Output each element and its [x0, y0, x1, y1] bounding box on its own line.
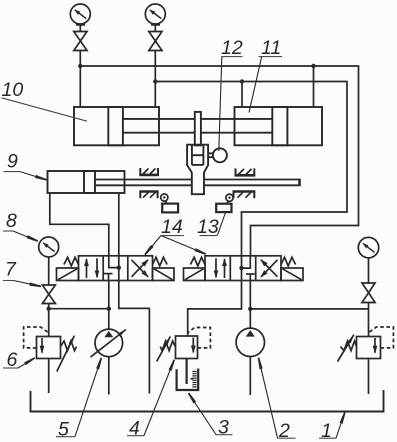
- label 9: [7, 151, 18, 173]
- cylinder 9 (feed cylinder): [48, 171, 125, 193]
- label 4: [127, 418, 145, 440]
- label 5: [56, 419, 75, 441]
- fixed guide (hatched) above beam right: [235, 168, 256, 175]
- pressure gauge MN1 (top left): [70, 4, 90, 25]
- svg-text:12: 12: [221, 37, 243, 59]
- wire: valve 7 to pump line: [48, 304, 50, 309]
- label 8: [6, 210, 17, 232]
- left valve left spring: [64, 257, 79, 266]
- wire: left valve port A down to pump 5: [108, 281, 110, 330]
- label 14 leaders: [146, 236, 205, 255]
- label 11: [259, 37, 283, 59]
- relief valve (right, item 6 twin): [338, 327, 394, 394]
- label 6 leader: [3, 358, 34, 368]
- left valve left solenoid: [57, 268, 79, 281]
- wire: right pump branch horizontal: [250, 308, 368, 310]
- right valve right solenoid: [281, 268, 303, 281]
- junction dot at pump 5 discharge: [107, 307, 111, 311]
- pressure gauge MN2 (top middle): [145, 4, 165, 25]
- slide beam / rod of cylinder 9: [95, 179, 300, 187]
- label 1: [319, 420, 337, 442]
- left valve square 1 arrows: [87, 258, 98, 278]
- wire: gauge MN2 drop to cylinder 10 right port: [154, 51, 156, 108]
- label 2: [277, 420, 296, 442]
- svg-text:6: 6: [7, 349, 18, 371]
- shut-off valve (right): [362, 283, 375, 303]
- shut-off valve under gauge MN2: [149, 26, 162, 51]
- shut-off valve under gauge MN1: [74, 26, 87, 51]
- right valve middle square: through line, elbow and blocked port: [242, 256, 255, 281]
- left valve square 3 crossed arrows: [132, 260, 149, 277]
- right valve right spring: [281, 257, 296, 266]
- relief valve 6: [24, 327, 77, 393]
- wire: relief valve 6 drop: [48, 309, 50, 337]
- tank 1: [31, 390, 384, 412]
- pressure gauge (right): [358, 237, 378, 257]
- wire: right shut-off valve to pump line: [368, 303, 370, 337]
- label 1 leader: [336, 413, 345, 438]
- label 6: [7, 349, 18, 371]
- right valve left spring: [190, 257, 205, 266]
- svg-text:7: 7: [5, 259, 17, 281]
- pump 2 (fixed displacement): [236, 328, 264, 395]
- label 13: [197, 216, 219, 238]
- label 7 leader: [3, 281, 40, 287]
- label 12 leader: [219, 57, 222, 152]
- wire: cylinder 11 right port drop: [313, 66, 315, 107]
- right valve square 1 arrows: [216, 258, 225, 278]
- label 10 leader: [2, 98, 88, 121]
- crosshead plate between rods: [195, 112, 201, 145]
- left valve right solenoid: [153, 268, 175, 281]
- svg-text:10: 10: [2, 79, 24, 101]
- wire: gauge 8 stem: [48, 257, 50, 285]
- label 12: [221, 37, 243, 59]
- cylinder 11 (right clamp cylinder): [201, 107, 322, 145]
- clamp yoke 12: [187, 145, 208, 195]
- svg-text:9: 9: [7, 151, 18, 173]
- cylinder 10 (left clamp cylinder): [74, 107, 195, 145]
- right valve square 3 crossed arrows: [261, 260, 278, 277]
- wire: line B horizontal (y=81.5): [155, 82, 347, 256]
- junction dot at valve 7 branch: [47, 307, 51, 311]
- junction dot B1: [153, 79, 157, 83]
- wire: pump 2 discharge: [249, 281, 251, 329]
- wire: cylinder 9 cap-end port elbow to left valve: [50, 193, 109, 256]
- label 5 leader: [75, 359, 101, 437]
- svg-text:11: 11: [261, 37, 281, 59]
- wire: line A horizontal (y=66): [80, 66, 358, 256]
- svg-text:13: 13: [197, 216, 219, 238]
- fixed guide (hatched) above beam left: [139, 168, 159, 175]
- label 7: [5, 259, 17, 281]
- pressure gauge 8 (left): [39, 237, 59, 257]
- shut-off valve 7: [42, 285, 55, 304]
- wire: right valve port to flow valve 4: [188, 281, 242, 337]
- label 4 leader: [144, 361, 174, 436]
- wire: gauge MN1 drop to cylinder 10 left port: [79, 51, 81, 108]
- label 13 leader: [218, 213, 226, 236]
- label 11 leader: [249, 57, 262, 113]
- junction dot A2: [311, 64, 315, 68]
- right valve left solenoid: [184, 268, 206, 281]
- label 8 leader: [3, 231, 37, 241]
- label 3 leader: [189, 394, 216, 435]
- left valve right spring: [153, 257, 168, 266]
- wire: left pump branch horizontal: [49, 308, 109, 310]
- measuring beaker 3: [177, 369, 199, 391]
- label 10: [2, 79, 24, 101]
- wire: right gauge stem: [368, 258, 370, 283]
- directional valve 14 (right) body: [205, 256, 281, 281]
- left valve middle square: through line, elbow and blocked port: [104, 256, 119, 281]
- wire: cylinder 11 left port drop: [241, 82, 243, 108]
- junction dot A1: [78, 64, 82, 68]
- flow control valve 4: [157, 328, 211, 385]
- ball electrode held by clamp: [208, 148, 227, 162]
- label 2 leader: [259, 359, 278, 438]
- svg-text:8: 8: [6, 210, 17, 232]
- wire: left valve port B jog to tank: [119, 281, 150, 394]
- wire: cylinder 9 rod-end port to left valve: [118, 193, 120, 256]
- junction dot B2: [240, 79, 244, 83]
- label 14: [161, 216, 185, 238]
- fixed guide (hatched) below beam left: [139, 192, 158, 199]
- junction dot inside left valve: [117, 265, 121, 269]
- pump 5 (variable displacement): [91, 329, 126, 394]
- label 3: [216, 417, 233, 439]
- fixed guide (hatched) below beam right: [233, 192, 256, 199]
- label 9 leader: [4, 172, 46, 180]
- junction dot at pump 2 discharge: [248, 307, 252, 311]
- junction dot inside right valve: [239, 266, 243, 270]
- roller limit switch left: [161, 194, 178, 213]
- roller limit switch 13 (right): [216, 194, 233, 212]
- directional valve 14 (left) body: [79, 256, 153, 281]
- svg-text:14: 14: [161, 216, 183, 238]
